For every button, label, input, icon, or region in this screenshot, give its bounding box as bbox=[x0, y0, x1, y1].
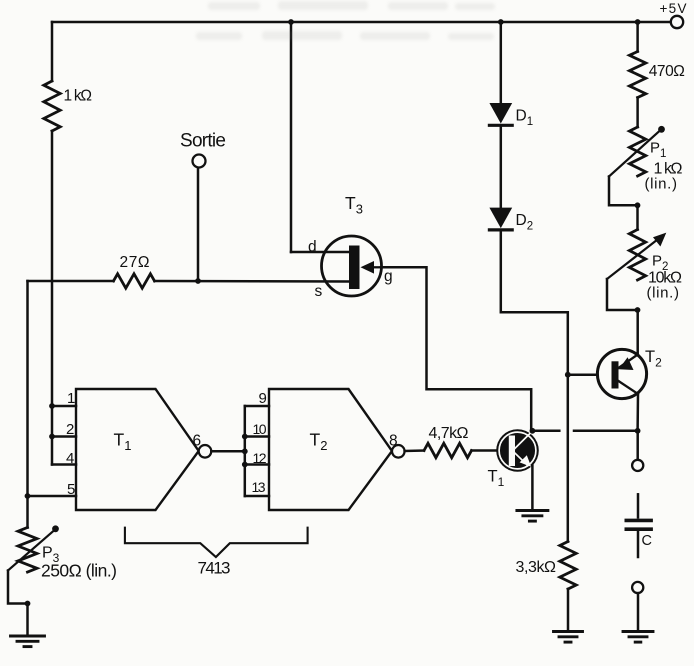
wire Sortie drop bbox=[197, 168, 200, 282]
node pin1 junction bbox=[49, 403, 55, 409]
wire top rail to 470 bbox=[636, 22, 639, 52]
ground below T1 bbox=[517, 509, 548, 512]
wire 1k down to NAND T1 input bus pins 1-2-4 bbox=[51, 131, 54, 465]
wire T1 emitter to ground bbox=[531, 466, 534, 510]
diode D1 bbox=[489, 103, 512, 124]
potentiometer P3 250 Ohm bbox=[18, 528, 37, 573]
svg-text:1: 1 bbox=[67, 390, 75, 407]
wire capacitor lower lead bbox=[637, 531, 640, 557]
svg-text:4,7kΩ: 4,7kΩ bbox=[429, 425, 469, 442]
terminal +5V bbox=[671, 16, 683, 28]
node pin2 junction bbox=[49, 434, 55, 440]
wire output line corner down to pin5 and P3 bbox=[26, 281, 29, 528]
wire T3 drain vertical from top rail bbox=[290, 22, 293, 252]
resistor 3,3 kOhm bbox=[560, 542, 576, 590]
svg-text:g: g bbox=[384, 268, 393, 285]
wire D2 down and jog right into 3.3k branch bbox=[501, 232, 568, 542]
wire T3 drain horizontal bbox=[291, 251, 350, 254]
svg-text:27Ω: 27Ω bbox=[120, 254, 150, 271]
svg-text:4: 4 bbox=[66, 450, 74, 467]
transistor T2 base bar bbox=[612, 361, 619, 388]
wire D1 to D2 bbox=[500, 127, 503, 208]
gate T2 output bubble pin 8 bbox=[392, 445, 405, 458]
wire 4.7k to T1 base bbox=[472, 449, 498, 452]
resistor 1 kOhm pull-up bbox=[44, 81, 60, 131]
ground below capacitor bbox=[623, 630, 653, 633]
node T1 collector junction bbox=[530, 428, 536, 434]
svg-text:12: 12 bbox=[253, 450, 267, 466]
svg-text:P1: P1 bbox=[650, 140, 666, 161]
wire pin 2 stub bbox=[52, 435, 76, 438]
node top rail / T3 drain branch bbox=[288, 19, 294, 25]
svg-text:s: s bbox=[315, 283, 323, 300]
svg-text:D1: D1 bbox=[516, 108, 534, 129]
brace 7413 bbox=[125, 528, 308, 557]
svg-text:3,3kΩ: 3,3kΩ bbox=[516, 559, 557, 576]
wire T3 gate to T1 collector node bbox=[381, 267, 531, 431]
wire pin 13 stub bbox=[245, 495, 269, 498]
svg-text:(lin.): (lin.) bbox=[645, 176, 678, 193]
terminal Sortie output bbox=[193, 155, 206, 168]
svg-text:1 kΩ: 1 kΩ bbox=[64, 88, 93, 105]
wire pin 5 stub bbox=[28, 495, 77, 498]
transistor T2 circle bbox=[597, 349, 646, 398]
wire bottom terminal to ground bbox=[637, 593, 640, 631]
transistor T2 collector bbox=[619, 381, 639, 394]
terminal capacitor top bbox=[632, 460, 643, 471]
node bus pin10 bbox=[242, 434, 248, 440]
svg-text:13: 13 bbox=[252, 479, 266, 495]
wire node row left part bbox=[532, 430, 559, 433]
wire pin 9 stub bbox=[245, 405, 269, 408]
wire 470 to P1 bbox=[636, 98, 639, 128]
diode D2 bbox=[489, 208, 512, 229]
capacitor C bbox=[626, 519, 651, 523]
svg-text:250Ω (lin.): 250Ω (lin.) bbox=[41, 561, 117, 581]
node top rail / 470 ohm branch bbox=[635, 19, 641, 25]
resistor 470 Ohm bbox=[629, 52, 645, 98]
svg-text:D2: D2 bbox=[516, 212, 534, 233]
svg-text:10: 10 bbox=[253, 421, 267, 437]
wire P2 to T2 emitter bbox=[636, 310, 639, 354]
potentiometer P2 10 kOhm bbox=[629, 230, 645, 281]
resistor 27 Ohm bbox=[114, 274, 155, 288]
wire pin 10 stub bbox=[245, 435, 269, 438]
wire gate2 input bus bbox=[244, 406, 247, 496]
svg-text:d: d bbox=[308, 239, 317, 256]
svg-text:T3: T3 bbox=[345, 193, 363, 217]
svg-text:470Ω: 470Ω bbox=[649, 63, 685, 80]
wire pin 1 stub bbox=[52, 405, 76, 408]
svg-text:T2: T2 bbox=[310, 430, 328, 454]
svg-text:T2: T2 bbox=[645, 348, 662, 370]
node Sortie junction bbox=[195, 278, 201, 284]
transistor T2 emitter with arrow bbox=[619, 354, 639, 368]
terminal capacitor bottom bbox=[632, 582, 643, 593]
node pin5 junction bbox=[25, 493, 31, 499]
transistor T3 gate arrow bbox=[371, 266, 381, 268]
wire output line to T3 source bbox=[155, 280, 350, 283]
node bus link bbox=[242, 448, 248, 454]
wire P3 to ground bbox=[26, 604, 29, 636]
svg-text:T1: T1 bbox=[488, 468, 505, 490]
wire 3.3k to ground bbox=[567, 589, 570, 631]
gate T2 NAND 7413 body bbox=[269, 389, 392, 510]
wire capacitor upper lead bbox=[637, 494, 640, 517]
wire pin 4 stub bbox=[52, 463, 76, 466]
svg-text:6: 6 bbox=[193, 433, 202, 450]
wire top rail to D1 bbox=[500, 22, 503, 104]
svg-text:7413: 7413 bbox=[198, 559, 231, 578]
node T2 base junction bbox=[565, 372, 571, 378]
gate T1 output bubble pin 6 bbox=[199, 445, 212, 458]
svg-text:+5V: +5V bbox=[660, 1, 687, 16]
wire node to upper C terminal bbox=[636, 431, 639, 460]
svg-text:5: 5 bbox=[67, 481, 75, 498]
transistor T3 channel bar bbox=[349, 246, 360, 290]
wire gate2 output to 4.7k bbox=[405, 449, 424, 452]
ground below 3.3k bbox=[554, 630, 583, 633]
wire +5V top rail bbox=[52, 21, 671, 24]
transistor T1 filled style bbox=[496, 429, 539, 472]
resistor 4,7 kOhm bbox=[424, 443, 472, 457]
wire node row right part bbox=[574, 430, 638, 433]
wire P1 to P2 bbox=[636, 205, 639, 229]
node top rail / diode branch bbox=[498, 19, 504, 25]
transistor T3 circle bbox=[322, 236, 382, 296]
ground below P3 bbox=[11, 635, 45, 638]
wire gate1 output to gate2 input bus bbox=[211, 450, 245, 453]
svg-text:8: 8 bbox=[389, 433, 398, 450]
wire T2 base bbox=[568, 373, 598, 376]
wire +5V rail down to 1k bbox=[51, 22, 54, 81]
node bus pin12 bbox=[242, 462, 248, 468]
svg-text:9: 9 bbox=[259, 390, 267, 407]
svg-text:(lin.): (lin.) bbox=[647, 285, 680, 302]
wire output line left segment bbox=[28, 280, 114, 283]
svg-text:C: C bbox=[642, 533, 652, 549]
wire pin 12 stub bbox=[245, 463, 269, 466]
svg-text:2: 2 bbox=[66, 421, 74, 438]
gate T1 NAND 7413 body bbox=[76, 389, 199, 510]
svg-text:Sortie: Sortie bbox=[180, 131, 226, 152]
potentiometer P1 1 kOhm bbox=[629, 127, 645, 176]
svg-text:T1: T1 bbox=[114, 430, 132, 454]
node T2 collector junction bbox=[635, 428, 641, 434]
